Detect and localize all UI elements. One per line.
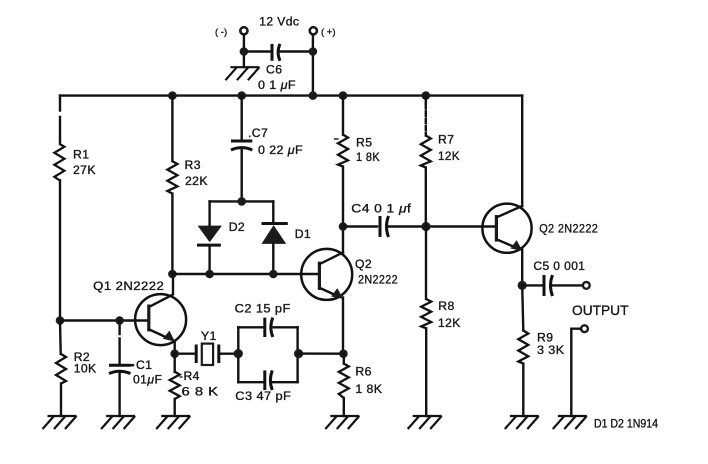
junction: [170, 349, 179, 358]
wire (diode rail to Q2 base): [172, 273, 319, 275]
junction: [339, 91, 348, 100]
terminal OUTPUT (upper): [572, 282, 629, 318]
svg-text:C6: C6: [266, 63, 282, 77]
wire: [59, 96, 61, 144]
transistor Q2 (middle): [301, 249, 398, 354]
svg-text:R6: R6: [355, 365, 371, 379]
wire (emitter node to Y1): [175, 353, 197, 355]
svg-text:0 1 μF: 0 1 μF: [258, 78, 296, 92]
ground (R9): [505, 416, 539, 429]
resistor R6: [339, 354, 383, 416]
svg-text:D1: D1: [295, 227, 311, 241]
capacitor C5: [522, 259, 585, 296]
junction: [168, 270, 177, 279]
svg-text:12K: 12K: [438, 149, 460, 163]
diode D2: [197, 201, 245, 274]
capacitor C4: [343, 202, 496, 237]
svg-text:( -): ( -): [215, 27, 227, 38]
svg-text:Y1: Y1: [201, 329, 217, 343]
svg-text:2N2222: 2N2222: [358, 273, 398, 287]
junction: [237, 91, 246, 100]
junction: [237, 197, 246, 206]
svg-text:R7: R7: [438, 133, 454, 147]
transistor Q1: [93, 274, 186, 354]
resistor R4: [170, 354, 219, 416]
wire (diode split): [210, 200, 274, 202]
junction: [339, 349, 348, 358]
svg-text:01μF: 01μF: [133, 373, 162, 387]
junction: [234, 349, 243, 358]
junction: [309, 47, 318, 56]
power rail +12V: [60, 94, 522, 96]
resistor R5: [334, 96, 380, 253]
junction: [339, 222, 348, 231]
wire: [243, 35, 245, 67]
svg-text:1 8K: 1 8K: [355, 382, 382, 396]
resistor R1: [54, 144, 95, 180]
capacitor C7: [231, 96, 303, 202]
wire: [219, 353, 239, 355]
junction: [269, 270, 278, 279]
label D1 D2 1N914: [594, 419, 659, 431]
wire: [298, 352, 344, 355]
junction: [240, 47, 249, 56]
svg-text:C5 0 001: C5 0 001: [533, 259, 585, 273]
wire: [312, 35, 314, 96]
capacitor C3: [235, 370, 297, 403]
diode D1: [262, 201, 312, 274]
svg-text:R5: R5: [356, 136, 372, 150]
svg-text:Q1 2N2222: Q1 2N2222: [93, 279, 164, 293]
svg-text:6 8 K: 6 8 K: [182, 385, 219, 399]
svg-text:Q2 2N2222: Q2 2N2222: [539, 222, 598, 236]
wire (loop left side): [237, 327, 239, 382]
resistor R7: [421, 96, 460, 227]
junction: [205, 270, 214, 279]
svg-text:( +): ( +): [321, 27, 336, 38]
junction: [294, 349, 303, 358]
junction: [518, 281, 527, 290]
svg-text:Q2: Q2: [355, 257, 372, 271]
wire: [59, 180, 61, 320]
resistor R9: [518, 285, 564, 416]
ground (C6): [225, 67, 259, 80]
ground (R2): [43, 416, 77, 429]
svg-text:OUTPUT: OUTPUT: [572, 302, 629, 318]
svg-text:D1 D2 1N914: D1 D2 1N914: [594, 419, 659, 431]
svg-text:.C7: .C7: [248, 126, 268, 140]
svg-text:C4 0 1 μf: C4 0 1 μf: [351, 202, 411, 216]
junction: [309, 91, 318, 100]
transistor Q2 (right): [482, 204, 598, 286]
resistor R8: [421, 227, 461, 417]
ground (R4): [156, 416, 190, 429]
svg-text:12 Vdc: 12 Vdc: [259, 15, 299, 29]
capacitor C2: [235, 302, 298, 337]
svg-text:0 22 μF: 0 22 μF: [258, 143, 303, 157]
label 12 Vdc: [259, 15, 299, 29]
svg-text:3 3K: 3 3K: [537, 343, 565, 357]
svg-text:D2: D2: [229, 220, 245, 234]
wire: [60, 384, 62, 417]
svg-text:1 8K: 1 8K: [356, 150, 380, 164]
terminal OUTPUT (lower): [571, 325, 588, 416]
svg-text:R1: R1: [73, 147, 89, 161]
svg-text:C3 47 pF: C3 47 pF: [235, 389, 291, 403]
svg-text:22K: 22K: [185, 174, 208, 188]
wire (base line): [60, 319, 149, 321]
capacitor C1: [109, 321, 162, 417]
wire: [59, 321, 62, 355]
junction: [115, 316, 124, 325]
svg-text:C1: C1: [136, 358, 152, 372]
svg-text:R3: R3: [185, 158, 201, 172]
ground (R6): [325, 416, 359, 429]
svg-text:10K: 10K: [74, 362, 97, 376]
junction: [168, 91, 177, 100]
terminal (-): [215, 27, 247, 38]
crystal Y1: [196, 329, 219, 365]
junction: [422, 91, 431, 100]
capacitor C6: [244, 44, 313, 92]
svg-text:12K: 12K: [438, 316, 461, 330]
svg-text:-R4: -R4: [179, 369, 200, 383]
ground (OUTPUT): [553, 416, 587, 429]
wire (loop right side): [296, 327, 298, 382]
junction: [56, 316, 65, 325]
resistor R3: [167, 96, 207, 274]
svg-text:27K: 27K: [73, 163, 96, 177]
svg-text:R8: R8: [438, 299, 454, 313]
ground (C1): [101, 416, 135, 429]
svg-text:C2 15 pF: C2 15 pF: [235, 302, 291, 316]
terminal (+): [310, 27, 336, 38]
junction: [421, 222, 430, 231]
resistor R2: [56, 350, 97, 384]
wire (Q2r collector): [521, 96, 523, 206]
ground (R8): [408, 416, 442, 429]
